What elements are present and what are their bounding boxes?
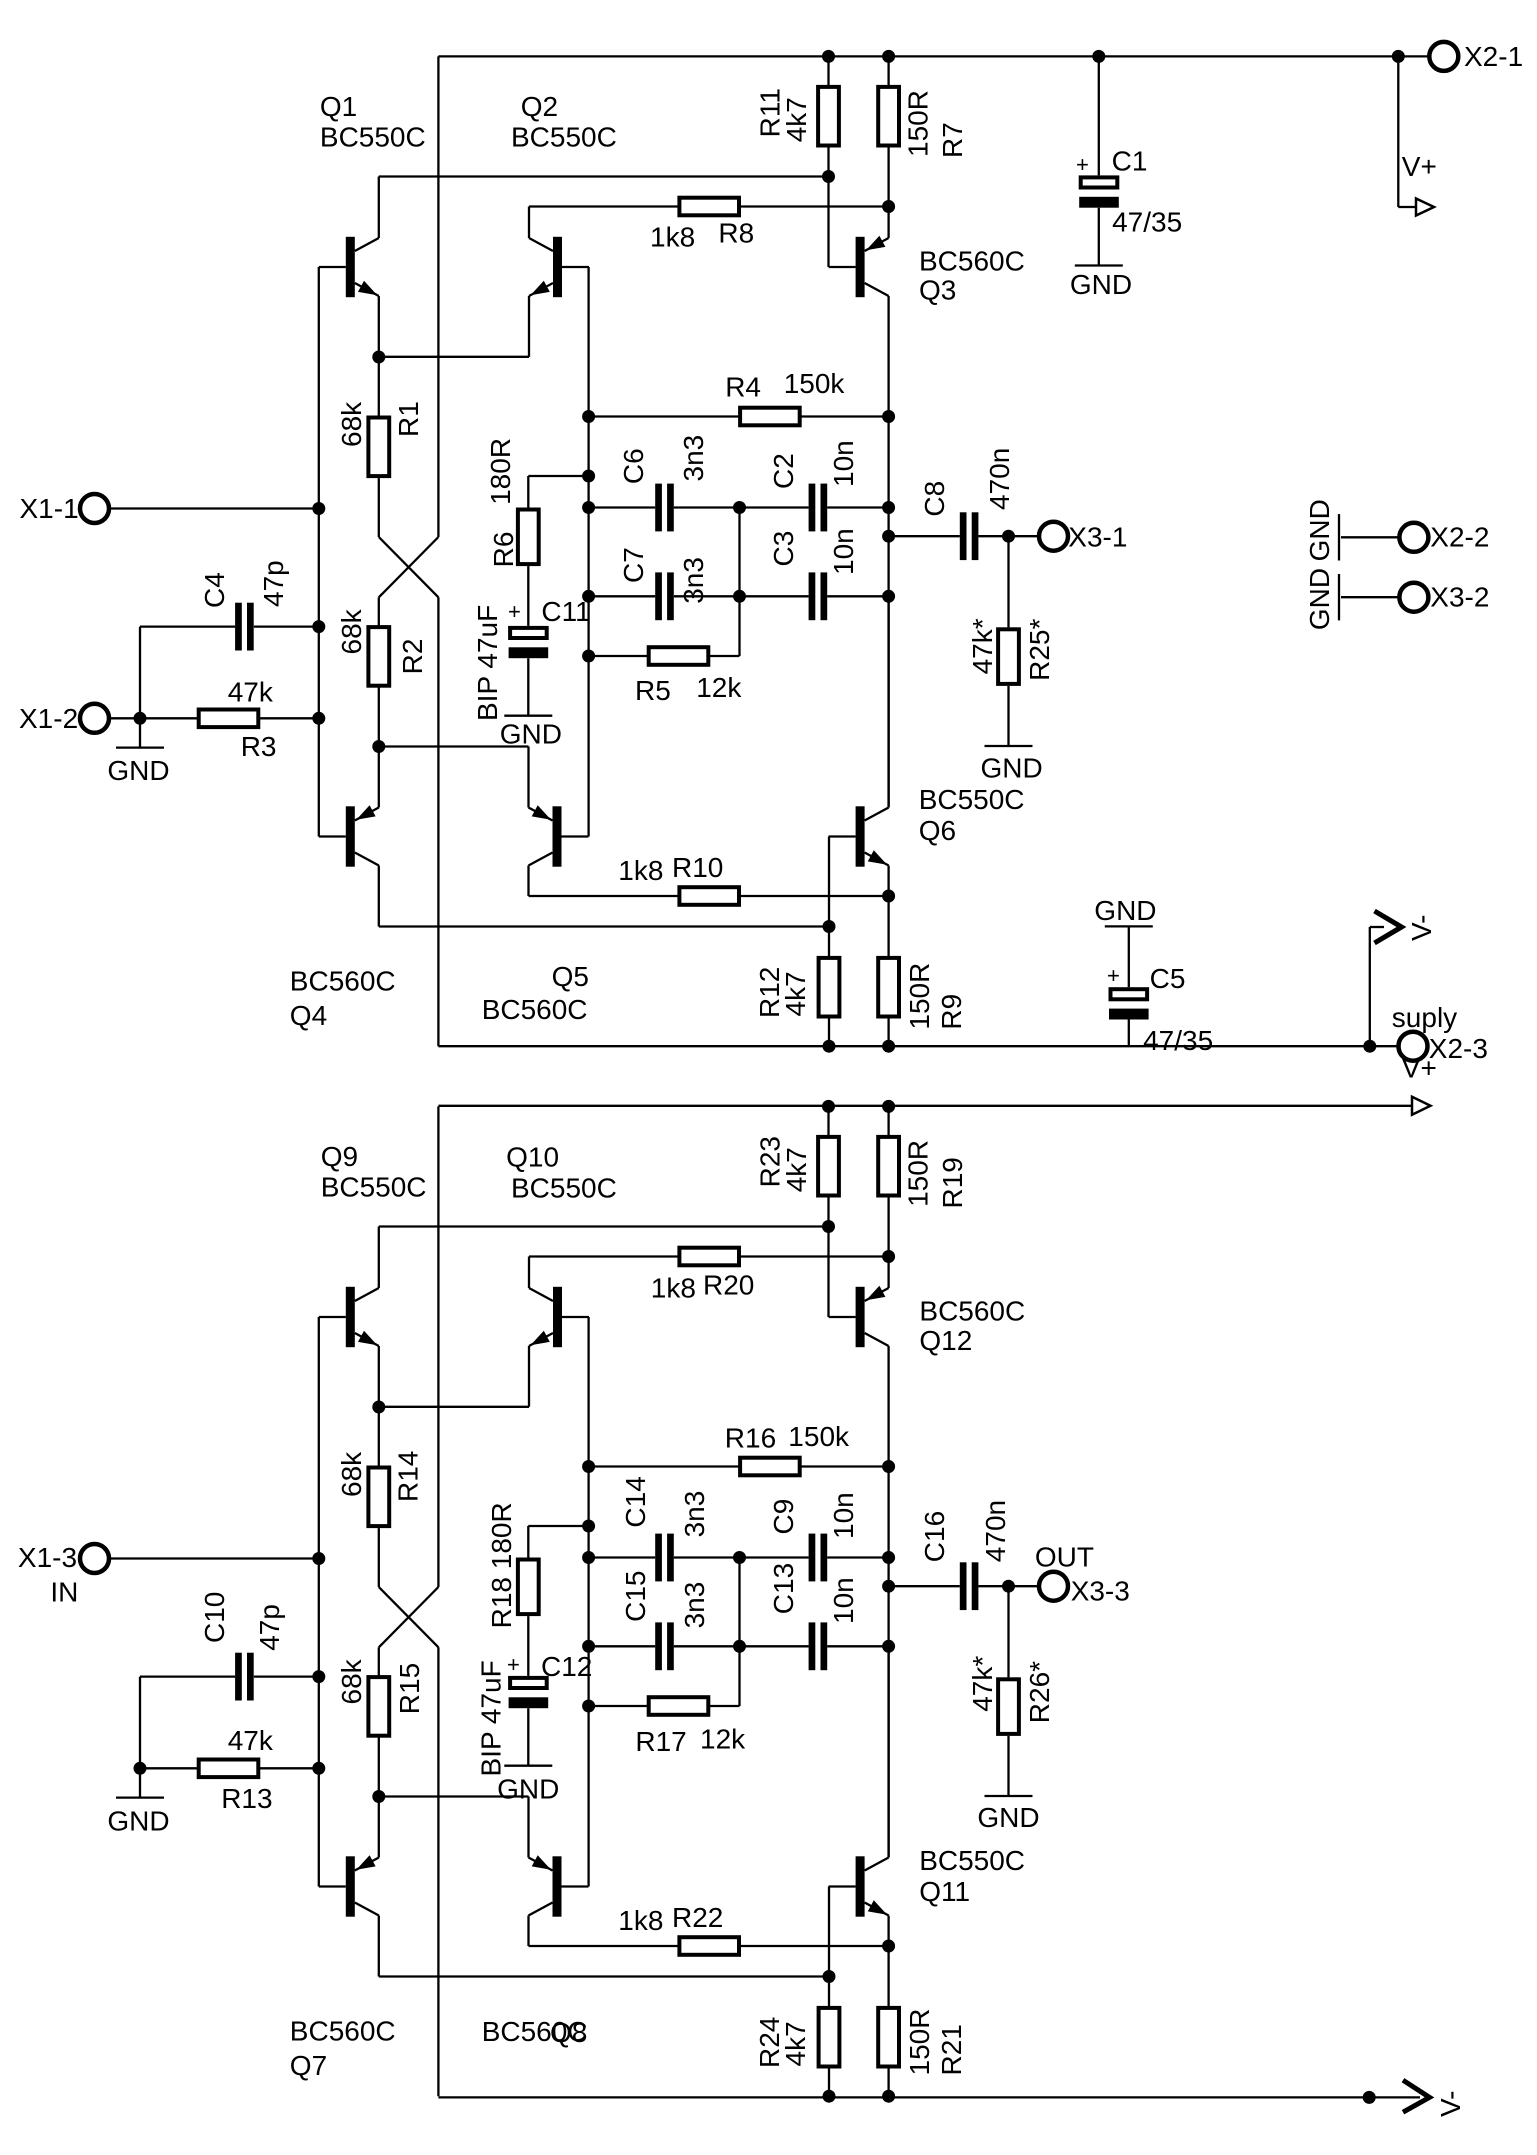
wire V+ symbol drop — [1397, 56, 1399, 207]
resistor R3 — [199, 710, 259, 728]
svg-text:BC550C: BC550C — [919, 1845, 1025, 1876]
connector X3-1 — [1039, 522, 1068, 551]
ground X3-2 — [1338, 574, 1340, 620]
svg-text:+: + — [508, 599, 521, 624]
wire Q6 base column — [828, 837, 830, 957]
wire R14 bottom — [378, 1528, 380, 1587]
wire output column upper — [887, 417, 889, 597]
node C13 right — [882, 1640, 895, 1653]
wire R26 bottom — [1007, 1736, 1009, 1796]
svg-text:47k: 47k — [228, 677, 274, 708]
wire emitters Q4-Q5 — [379, 745, 529, 747]
node C7 left — [582, 590, 595, 603]
wire R12 bottom — [828, 1018, 830, 1046]
wire gnd branch vertical — [139, 627, 141, 748]
wire R7 bottom — [887, 147, 889, 206]
transistor Q11 — [829, 1646, 889, 2096]
capacitor C4 — [235, 603, 242, 651]
svg-text:47p: 47p — [254, 1604, 285, 1651]
svg-text:R25*: R25* — [1024, 619, 1055, 681]
resistor R16 — [740, 1458, 800, 1476]
svg-text:Q10: Q10 — [506, 1142, 559, 1173]
wire gnd branch vertical b — [139, 1677, 141, 1798]
svg-text:150R: 150R — [903, 1140, 934, 1207]
wire R11 top — [827, 56, 829, 85]
svg-text:1k8: 1k8 — [618, 1905, 663, 1936]
node Q4 emitter — [372, 740, 385, 753]
resistor R7 — [878, 87, 899, 146]
capacitor C7 — [655, 572, 662, 620]
wire C16 left — [889, 1585, 960, 1587]
wire R13 right — [258, 1767, 318, 1769]
wire C5 to rail — [1128, 1020, 1130, 1047]
node rail R7 — [882, 50, 895, 63]
svg-text:C13: C13 — [768, 1563, 799, 1614]
node Q7 emitter — [372, 1790, 385, 1803]
svg-text:R17: R17 — [635, 1726, 686, 1757]
svg-text:C16: C16 — [919, 1511, 950, 1562]
svg-text:IN: IN — [50, 1577, 78, 1608]
wire R2 bottom — [378, 686, 380, 747]
wire R23 bottom — [827, 1197, 829, 1317]
wire X1-1 to input node — [110, 507, 319, 509]
wire V- bottom rail b — [438, 2096, 1420, 2098]
svg-text:Q5: Q5 — [552, 961, 589, 992]
svg-text:4k7: 4k7 — [780, 971, 811, 1016]
svg-text:V+: V+ — [1402, 1053, 1437, 1084]
svg-text:4k7: 4k7 — [781, 97, 812, 142]
svg-text:V-: V- — [1406, 915, 1437, 941]
wire R18 to C12 — [527, 1616, 529, 1676]
svg-text:R1: R1 — [393, 401, 424, 437]
svg-text:BC550C: BC550C — [320, 122, 426, 153]
V- arrow b — [1403, 2080, 1430, 2112]
node rail R19 — [882, 1100, 895, 1113]
svg-text:68k: 68k — [336, 401, 367, 447]
node R5 left — [582, 650, 595, 663]
transistor Q6 — [829, 596, 889, 1046]
svg-text:10n: 10n — [828, 1577, 859, 1624]
node C14 right — [733, 1551, 746, 1564]
resistor R22 — [679, 1937, 739, 1955]
node C7 right — [733, 590, 746, 603]
wire R17 right — [708, 1705, 739, 1707]
svg-text:C15: C15 — [620, 1571, 651, 1622]
resistor R1 — [368, 418, 389, 477]
svg-text:BC560C: BC560C — [919, 246, 1025, 277]
svg-text:R6: R6 — [488, 532, 519, 568]
svg-text:R16: R16 — [725, 1423, 776, 1454]
transistor Q5 — [529, 747, 589, 897]
wire Q2 collector to R8 — [529, 205, 678, 207]
wire input node column — [318, 267, 320, 837]
node C6 right — [733, 501, 746, 514]
node R12 bottom — [823, 1040, 836, 1053]
svg-text:C12: C12 — [541, 1651, 592, 1682]
wire C1 to ground — [1098, 208, 1100, 266]
node Q6 base link — [823, 920, 836, 933]
ground C12 — [504, 1765, 552, 1767]
V+ arrow — [1416, 199, 1434, 216]
wire V- column b — [437, 1647, 439, 2096]
svg-text:X1-2: X1-2 — [19, 703, 78, 734]
connector X1-2 — [80, 704, 109, 733]
svg-text:Q8: Q8 — [550, 2017, 587, 2048]
svg-text:Q11: Q11 — [919, 1876, 970, 1907]
wire R6 to C11 — [527, 566, 529, 626]
wire V- symbol — [1369, 927, 1371, 1046]
wire X1-3 to input node — [110, 1557, 319, 1559]
wire C13 left — [740, 1645, 809, 1647]
ground C1 — [1075, 264, 1123, 266]
wire C9 right — [827, 1556, 888, 1558]
svg-text:X2-3: X2-3 — [1429, 1033, 1488, 1064]
svg-text:10n: 10n — [828, 528, 859, 575]
svg-text:Q9: Q9 — [321, 1141, 358, 1172]
svg-text:C6: C6 — [618, 448, 649, 484]
svg-text:C4: C4 — [199, 572, 230, 608]
wire R22 right — [741, 1945, 889, 1947]
svg-text:C9: C9 — [768, 1499, 799, 1535]
node rail R23 — [822, 1100, 835, 1113]
capacitor C16 — [960, 1562, 967, 1610]
node X2-1 branch — [1392, 50, 1405, 63]
node emitter Q1 — [372, 351, 385, 364]
resistor R13 — [199, 1760, 259, 1778]
wire output column lower — [887, 596, 889, 807]
node C6 left — [582, 501, 595, 514]
transistor Q3 — [829, 207, 889, 417]
wire R14 top — [378, 1407, 380, 1466]
svg-text:X1-3: X1-3 — [18, 1542, 77, 1573]
wire R1 top — [378, 357, 380, 416]
svg-text:X2-1: X2-1 — [1464, 41, 1523, 72]
svg-text:X3-1: X3-1 — [1068, 522, 1127, 553]
wire C7 right — [674, 595, 740, 597]
node R10 right — [882, 890, 895, 903]
resistor R10 — [679, 887, 739, 905]
wire R3 right — [258, 717, 318, 719]
wire R23 top — [827, 1106, 829, 1135]
wire C15 left — [589, 1645, 656, 1647]
svg-text:GND: GND — [977, 1802, 1039, 1833]
svg-text:Q3: Q3 — [919, 275, 956, 306]
svg-text:C3: C3 — [768, 531, 799, 567]
node R9 bottom — [882, 1040, 895, 1053]
capacitor C13 — [809, 1622, 816, 1670]
svg-text:68k: 68k — [336, 1451, 367, 1497]
ground R25 — [985, 745, 1033, 747]
svg-text:12k: 12k — [696, 672, 742, 703]
connector X2-2 — [1399, 523, 1428, 552]
node R4 right — [882, 410, 895, 423]
node C8 left — [882, 530, 895, 543]
resistor R26 — [998, 1679, 1019, 1734]
svg-text:68k: 68k — [336, 1658, 367, 1704]
wire C6-C7 right link — [738, 508, 740, 597]
svg-text:47/35: 47/35 — [1112, 207, 1182, 238]
wire C14 right — [674, 1556, 740, 1558]
resistor R11 — [818, 87, 839, 146]
svg-text:GND: GND — [107, 755, 169, 786]
wire emitters Q7-Q8 — [379, 1795, 529, 1797]
svg-text:C11: C11 — [541, 596, 590, 627]
wire Q7 collector row — [379, 1975, 829, 1977]
ground C11 — [504, 715, 552, 717]
svg-text:BC560C: BC560C — [290, 2016, 396, 2047]
capacitor C12 electrolytic — [510, 1678, 547, 1688]
svg-text:R13: R13 — [221, 1783, 272, 1814]
wire C14-C15 right link — [738, 1558, 740, 1647]
node R21 bottom — [882, 2090, 895, 2103]
svg-text:suply: suply — [1392, 1002, 1457, 1033]
wire R5 left — [589, 655, 649, 657]
svg-text:47k: 47k — [228, 1725, 274, 1756]
transistor Q12 — [829, 1257, 889, 1467]
wire C15 right — [674, 1645, 740, 1647]
wire R19 bottom — [887, 1197, 889, 1256]
node C2 right — [882, 501, 895, 514]
wire Q8 collector to R22 — [529, 1945, 678, 1947]
wire C10 left — [140, 1675, 235, 1677]
node C15 left — [582, 1640, 595, 1653]
svg-text:GND: GND — [1070, 269, 1132, 300]
svg-text:4k7: 4k7 — [781, 1147, 812, 1192]
svg-text:OUT: OUT — [1035, 1542, 1094, 1573]
ground left b — [116, 1796, 164, 1798]
node R6 link — [582, 470, 595, 483]
capacitor C5 electrolytic — [1111, 989, 1148, 999]
svg-text:BIP 47uF: BIP 47uF — [476, 1660, 507, 1776]
svg-text:GND: GND — [1304, 499, 1335, 561]
node gnd branch — [134, 712, 147, 725]
resistor R6 — [518, 510, 539, 565]
ground R26 — [985, 1795, 1033, 1797]
svg-text:R14: R14 — [393, 1451, 424, 1502]
wire C9 left — [740, 1556, 809, 1558]
transistor Q4 — [319, 747, 379, 927]
capacitor C14 — [655, 1534, 662, 1582]
svg-text:180R: 180R — [485, 438, 516, 505]
node R18 link — [582, 1520, 595, 1533]
svg-text:GND: GND — [1094, 895, 1156, 926]
node R16 right — [882, 1460, 895, 1473]
svg-text:47k*: 47k* — [967, 618, 998, 674]
svg-text:C5: C5 — [1150, 963, 1186, 994]
svg-text:V-: V- — [1435, 2091, 1466, 2117]
wire C2 right — [827, 506, 888, 508]
resistor R20 — [679, 1248, 739, 1266]
svg-text:R15: R15 — [394, 1663, 425, 1714]
svg-text:+: + — [1107, 963, 1120, 988]
capacitor C10 — [235, 1653, 242, 1701]
wire C14 left — [589, 1556, 656, 1558]
svg-text:BC560C: BC560C — [482, 994, 588, 1025]
connector X2-3 — [1399, 1032, 1428, 1061]
svg-text:GND: GND — [497, 1774, 559, 1805]
node C3 right — [882, 590, 895, 603]
svg-text:R10: R10 — [672, 852, 723, 883]
wire R8 right — [741, 205, 889, 207]
node V- rail b — [1363, 2091, 1376, 2104]
svg-text:GND: GND — [107, 1806, 169, 1837]
svg-text:GND: GND — [500, 719, 562, 750]
wire Q2 base column — [587, 267, 589, 837]
svg-text:470n: 470n — [984, 448, 1015, 510]
wire R5 right — [708, 655, 739, 657]
svg-text:150k: 150k — [784, 368, 846, 399]
capacitor C15 — [655, 1622, 662, 1670]
wire Q10 collector to R20 — [529, 1255, 678, 1257]
svg-text:47k*: 47k* — [967, 1656, 998, 1712]
resistor R14 — [368, 1468, 389, 1527]
node C9 right — [882, 1551, 895, 1564]
wire output column lower b — [887, 1646, 889, 1857]
svg-text:10n: 10n — [828, 440, 859, 487]
wire C8 left — [889, 535, 960, 537]
wire C3 right — [827, 595, 888, 597]
wire C6 right — [674, 506, 740, 508]
wire R15 bottom — [378, 1736, 380, 1797]
connector X3-2 — [1399, 583, 1428, 612]
node C16 left — [882, 1580, 895, 1593]
wire R25 top — [1007, 536, 1009, 627]
wire V+ top rail — [438, 55, 1427, 57]
svg-text:R7: R7 — [937, 122, 968, 158]
wire R24 bottom — [828, 2068, 830, 2096]
svg-text:C10: C10 — [199, 1592, 230, 1643]
svg-text:R22: R22 — [672, 1902, 723, 1933]
resistor R18 — [518, 1560, 539, 1615]
node R17 left — [582, 1700, 595, 1713]
resistor R17 — [649, 1697, 709, 1715]
resistor R5 — [649, 647, 709, 665]
transistor Q7 — [319, 1797, 379, 1977]
wire R11 bottom — [827, 147, 829, 267]
svg-text:Q2: Q2 — [521, 91, 558, 122]
capacitor C3 — [809, 572, 816, 620]
wire Q4 collector row — [379, 925, 829, 927]
ground C5 — [1105, 925, 1153, 927]
node R4 left — [582, 410, 595, 423]
wire R15 top — [378, 1647, 380, 1677]
node C10 right — [312, 1670, 325, 1683]
svg-text:R8: R8 — [718, 218, 754, 249]
wire input node column b — [318, 1317, 320, 1887]
capacitor C11 electrolytic — [510, 628, 547, 638]
svg-text:R26*: R26* — [1024, 1661, 1055, 1723]
wire R1 bottom — [378, 478, 380, 537]
connector X2-1 — [1429, 42, 1458, 71]
wire R10 right — [741, 895, 889, 897]
node gnd branch b — [134, 1762, 147, 1775]
node C16 right — [1002, 1580, 1015, 1593]
node R19 bottom — [882, 1250, 895, 1263]
svg-text:BC560C: BC560C — [290, 966, 396, 997]
svg-text:R19: R19 — [937, 1157, 968, 1208]
wire X2-2 — [1341, 536, 1398, 538]
wire C11 to ground — [527, 658, 529, 716]
svg-text:R5: R5 — [635, 675, 671, 706]
wire V+ rail drop b — [437, 1106, 439, 1587]
svg-text:150k: 150k — [788, 1421, 850, 1452]
node input b — [312, 1552, 325, 1565]
svg-text:10n: 10n — [828, 1492, 859, 1539]
resistor R21 — [878, 2008, 899, 2067]
svg-text:GND: GND — [1304, 568, 1335, 630]
svg-text:R21: R21 — [936, 2024, 967, 2075]
transistor Q2 — [529, 207, 589, 357]
svg-text:R18 180R: R18 180R — [486, 1502, 517, 1628]
node C14 left — [582, 1551, 595, 1564]
node input — [312, 502, 325, 515]
node R24 bottom — [823, 2090, 836, 2103]
node V- branch — [1363, 1040, 1376, 1053]
wire C13 right — [827, 1645, 888, 1647]
svg-text:BC550C: BC550C — [511, 122, 617, 153]
svg-text:C8: C8 — [919, 481, 950, 517]
svg-text:GND: GND — [981, 753, 1043, 784]
connector X1-3 — [80, 1544, 109, 1573]
wire R4 right — [800, 415, 889, 417]
node C15 right — [733, 1640, 746, 1653]
wire C4 right — [254, 625, 319, 627]
wire emitters Q9-Q10 — [379, 1406, 529, 1408]
transistor Q9 — [319, 1227, 379, 1408]
wire R2 top — [378, 597, 380, 627]
capacitor C2 — [809, 484, 816, 532]
svg-text:R3: R3 — [241, 731, 277, 762]
svg-text:BC550C: BC550C — [511, 1173, 617, 1204]
wire V+ top rail b — [438, 1105, 1412, 1107]
svg-text:12k: 12k — [700, 1724, 746, 1755]
resistor R24 — [819, 2008, 840, 2067]
connector X3-3 — [1039, 1572, 1068, 1601]
wire R16 left — [589, 1465, 740, 1467]
node Q11 base link — [823, 1970, 836, 1983]
wire gnd to C5 — [1128, 926, 1130, 987]
svg-text:68k: 68k — [336, 608, 367, 654]
resistor R8 — [679, 198, 739, 216]
wire output column upper b — [887, 1467, 889, 1647]
svg-text:Q7: Q7 — [290, 2050, 327, 2081]
transistor Q8 — [529, 1797, 589, 1947]
wire C7 left — [589, 595, 656, 597]
wire C2 left — [740, 506, 809, 508]
resistor R9 — [878, 958, 899, 1017]
wire C3 left — [740, 595, 809, 597]
node C8 right — [1002, 530, 1015, 543]
svg-text:C2: C2 — [768, 453, 799, 489]
wire R26 top — [1007, 1586, 1009, 1677]
resistor R23 — [818, 1137, 839, 1196]
wire R25 bottom — [1007, 686, 1009, 746]
transistor Q10 — [529, 1257, 589, 1407]
node R22 right — [882, 1940, 895, 1953]
svg-text:BC550C: BC550C — [919, 784, 1025, 815]
wire R6 top link — [528, 475, 588, 477]
node R16 left — [582, 1460, 595, 1473]
resistor R12 — [819, 958, 840, 1017]
node rail R11 — [822, 50, 835, 63]
node C4 right — [312, 620, 325, 633]
svg-text:47/35: 47/35 — [1143, 1025, 1213, 1056]
svg-text:BC560C: BC560C — [919, 1296, 1025, 1327]
resistor R25 — [998, 629, 1019, 684]
resistor R19 — [878, 1137, 899, 1196]
svg-text:R20: R20 — [703, 1270, 754, 1301]
wire C12 to ground — [527, 1708, 529, 1766]
